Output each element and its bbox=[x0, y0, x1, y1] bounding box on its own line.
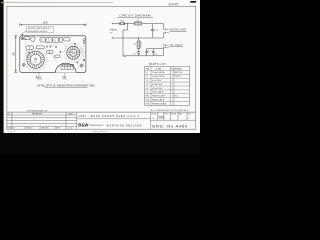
svg-text:WORTHING ENGLAND: WORTHING ENGLAND bbox=[107, 124, 142, 127]
node L2 tap bbox=[138, 38, 139, 39]
terminal block footprint bbox=[61, 64, 74, 69]
svg-text:50mm CABLE: 50mm CABLE bbox=[152, 91, 164, 94]
svg-text:1: 1 bbox=[172, 80, 173, 82]
capacitor C5 footprint bbox=[59, 37, 62, 42]
resistor R2 footprint bbox=[26, 46, 33, 50]
resistor R4 footprint bbox=[55, 55, 61, 58]
capacitor C1 footprint bbox=[40, 37, 45, 42]
svg-text:1: 1 bbox=[172, 103, 173, 105]
svg-text:2.5mH CHOKE: 2.5mH CHOKE bbox=[152, 72, 165, 74]
projection symbol bbox=[159, 116, 165, 118]
svg-text:C2: C2 bbox=[25, 38, 27, 40]
capacitor C3 bbox=[133, 49, 140, 56]
svg-text:PARTS LIST: PARTS LIST bbox=[149, 63, 166, 66]
wire bbox=[142, 23, 164, 25]
label Bass bbox=[36, 72, 42, 79]
svg-text:1: 1 bbox=[172, 76, 173, 78]
svg-text:MELF 250V: MELF 250V bbox=[174, 72, 182, 74]
revision sign-off row bbox=[8, 126, 73, 129]
node fuse-out junction bbox=[127, 23, 128, 24]
svg-text:MAINS UNIT: MAINS UNIT bbox=[170, 29, 187, 32]
mounting hole 4 (top-right) bbox=[83, 39, 85, 44]
svg-text:FINISH: FINISH bbox=[171, 113, 176, 115]
svg-text:C1: C1 bbox=[146, 80, 148, 82]
box HT UNIT bbox=[170, 44, 183, 47]
toroid L1 footprint (right) bbox=[64, 44, 83, 63]
track dashed curves bbox=[25, 44, 78, 70]
svg-text:1: 1 bbox=[172, 100, 173, 102]
svg-text:C4: C4 bbox=[148, 50, 150, 52]
capacitor C1 bbox=[151, 24, 159, 38]
terminal live in bbox=[112, 23, 114, 25]
svg-text:1:1: 1:1 bbox=[152, 118, 154, 120]
svg-text:0.47uF 250V: 0.47uF 250V bbox=[152, 88, 163, 90]
connector pin pair mains bbox=[164, 29, 169, 38]
svg-text:DETAIL OF P.C.B. VIEWED FROM C: DETAIL OF P.C.B. VIEWED FROM COMPONENT S… bbox=[37, 84, 95, 87]
svg-text:C4: C4 bbox=[146, 88, 148, 90]
capacitor C4 bbox=[145, 49, 150, 56]
wire jog from fuse junction bbox=[123, 24, 128, 56]
svg-text:REVISIONS: REVISIONS bbox=[32, 114, 43, 116]
mounting hole 3 (bottom-right) bbox=[80, 64, 84, 68]
svg-text:1: 1 bbox=[172, 88, 173, 90]
track lines solid bbox=[26, 40, 81, 59]
svg-text:scan 5.16: scan 5.16 bbox=[7, 131, 15, 133]
svg-text:TYPE X2: TYPE X2 bbox=[174, 76, 180, 78]
svg-text:MOUNTING HOLE 4: MOUNTING HOLE 4 bbox=[28, 31, 48, 33]
svg-text:0.1uF 250V: 0.1uF 250V bbox=[152, 80, 162, 82]
PCB board outline bbox=[20, 36, 86, 73]
svg-text:L2: L2 bbox=[35, 62, 37, 64]
wire top rail bbox=[113, 23, 120, 25]
svg-text:L1: L1 bbox=[146, 72, 148, 74]
svg-text:1: 1 bbox=[172, 72, 173, 74]
svg-text:1.2mH CHOKE: 1.2mH CHOKE bbox=[152, 76, 165, 78]
capacitor C3 footprint bbox=[46, 37, 52, 42]
svg-text:MAINS CABLE: MAINS CABLE bbox=[152, 99, 165, 102]
svg-text:1: 1 bbox=[172, 92, 173, 94]
svg-text:SK1: SK1 bbox=[146, 100, 149, 102]
svg-text:No: No bbox=[8, 114, 10, 116]
wire cap loop top bbox=[147, 48, 164, 50]
svg-text:DRN S.W: DRN S.W bbox=[8, 127, 15, 129]
fuse FS1 footprint bbox=[36, 46, 44, 49]
title block top line bbox=[7, 111, 196, 113]
label MAINS IN bbox=[110, 29, 117, 35]
scan black band bottom bbox=[0, 133, 200, 154]
wire lower bus bbox=[126, 55, 163, 57]
svg-text:C5: C5 bbox=[155, 54, 157, 56]
wire bbox=[125, 23, 135, 25]
right cells divider bbox=[150, 112, 152, 129]
maker logo B&W bbox=[78, 123, 142, 128]
svg-text:1: 1 bbox=[172, 84, 173, 86]
note box: mounting note bbox=[21, 26, 53, 35]
capacitor C5 bbox=[152, 49, 157, 56]
svg-text:CHECKED: CHECKED bbox=[41, 127, 50, 129]
pad cluster bbox=[28, 43, 78, 63]
svg-text:PROJ: PROJ bbox=[164, 113, 168, 115]
svg-text:1992 - BASS CROSS OVER mark 4: 1992 - BASS CROSS OVER mark 4 bbox=[78, 114, 139, 118]
svg-text:D445: D445 bbox=[169, 2, 179, 7]
svg-text:CIRCUIT DIAGRAM: CIRCUIT DIAGRAM bbox=[119, 14, 151, 18]
svg-text:95: 95 bbox=[12, 52, 16, 56]
dashed pad row right edge bbox=[83, 45, 85, 64]
svg-text:DRG. No A460: DRG. No A460 bbox=[152, 123, 187, 128]
svg-text:MAINS: MAINS bbox=[110, 29, 117, 32]
dimension 180 line bbox=[20, 23, 86, 26]
link LK1 bbox=[124, 55, 126, 56]
connector pin pair ht bbox=[163, 44, 168, 48]
svg-text:1: 1 bbox=[172, 96, 173, 98]
svg-text:C3: C3 bbox=[146, 84, 148, 86]
title area divider bbox=[76, 112, 78, 129]
svg-text:12.1.92: 12.1.92 bbox=[67, 127, 72, 129]
label Mid bbox=[63, 73, 68, 79]
svg-text:FS1: FS1 bbox=[146, 96, 149, 98]
svg-text:HT UNIT: HT UNIT bbox=[170, 44, 183, 47]
svg-text:180: 180 bbox=[42, 21, 47, 25]
wire bottom rail bbox=[113, 37, 163, 39]
svg-text:0.22uF 250V: 0.22uF 250V bbox=[152, 84, 163, 86]
terminal neutral in bbox=[112, 37, 114, 39]
pad circle A bbox=[83, 59, 85, 61]
svg-text:B&W: B&W bbox=[78, 123, 88, 128]
parts table frame bbox=[145, 67, 190, 106]
svg-text:DETAIL: DETAIL bbox=[156, 67, 162, 70]
svg-text:MOUNT LAST WIRE TO: MOUNT LAST WIRE TO bbox=[28, 27, 51, 30]
capacitor C2 footprint bbox=[24, 37, 29, 41]
inductor L2 bbox=[134, 38, 141, 49]
inductor L1 bbox=[135, 19, 142, 25]
box MAINS UNIT bbox=[170, 29, 187, 32]
svg-text:PRINTED BOARD: PRINTED BOARD bbox=[152, 102, 167, 105]
svg-text:FUSE HOLDER: FUSE HOLDER bbox=[152, 96, 165, 98]
svg-text:C5: C5 bbox=[146, 92, 148, 94]
svg-text:www.audiofan.de: www.audiofan.de bbox=[92, 131, 108, 133]
wire to HT connector bbox=[162, 47, 164, 56]
wire top rail to connector bbox=[163, 24, 165, 30]
capacitor C6 footprint bbox=[64, 38, 70, 41]
svg-text:C4: C4 bbox=[54, 40, 56, 42]
dimension 95 (left vertical) bbox=[14, 36, 17, 73]
parts table text bbox=[146, 67, 182, 105]
resistor R1 footprint bbox=[31, 37, 35, 41]
caption detail note bbox=[37, 84, 95, 87]
fuse FS1 bbox=[120, 21, 125, 25]
svg-text:DATE: DATE bbox=[68, 113, 74, 116]
svg-text:ALL DIMENSIONS IN MILLIMETRES: ALL DIMENSIONS IN MILLIMETRES bbox=[151, 109, 189, 112]
revision table bbox=[7, 112, 77, 129]
toroid L2 footprint (left large) bbox=[25, 49, 47, 71]
resistor R3 footprint bbox=[47, 51, 54, 54]
scan mark top-right bbox=[190, 1, 196, 3]
svg-text:Loudspeakers: Loudspeakers bbox=[89, 124, 105, 127]
scan black band left bbox=[0, 0, 4, 154]
bottom edge under arch bbox=[55, 71, 76, 73]
svg-text:SHT: SHT bbox=[188, 113, 191, 115]
svg-text:C1: C1 bbox=[41, 40, 43, 42]
svg-text:L2: L2 bbox=[146, 76, 148, 78]
svg-text:No: No bbox=[171, 68, 173, 70]
mounting hole 2 (bottom-left) bbox=[22, 63, 25, 66]
capacitor C4 footprint bbox=[53, 37, 59, 42]
border frame bbox=[7, 6, 196, 129]
mounting hole 1 (top-left) bbox=[21, 37, 24, 40]
scan grey top edge line bbox=[1, 1, 113, 3]
